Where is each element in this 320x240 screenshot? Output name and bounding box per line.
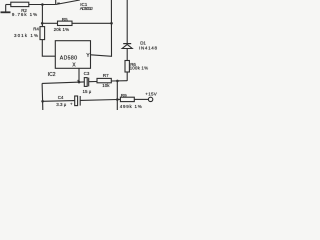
wire node down to bottom — [116, 81, 118, 110]
+15V terminal circle — [148, 97, 152, 101]
svg-text:C3: C3 — [84, 71, 90, 76]
svg-text:9.76k 1%: 9.76k 1% — [12, 12, 37, 17]
junction R7/R6/down — [116, 80, 119, 83]
svg-text:C4: C4 — [58, 95, 64, 100]
IC2 AD580 box — [55, 41, 90, 69]
svg-text:+: + — [70, 102, 73, 107]
wire node to R5 — [42, 22, 57, 24]
svg-text:X: X — [72, 62, 76, 68]
svg-text:100k 1%: 100k 1% — [130, 66, 149, 71]
svg-text:+15V: +15V — [145, 92, 157, 97]
svg-text:301k 1%: 301k 1% — [14, 33, 38, 38]
diode D1 — [122, 44, 132, 49]
resistor R4 — [40, 27, 45, 40]
wire R6 top to D1 — [126, 49, 128, 61]
wire R7 to node — [111, 80, 127, 82]
svg-text:R5: R5 — [62, 17, 68, 22]
junction X pin / middle rail — [78, 81, 81, 84]
junction R9 rail — [116, 98, 119, 101]
output node junction — [110, 22, 113, 25]
resistor R9 — [120, 97, 134, 101]
wire R2 to op-amp input — [29, 4, 56, 6]
svg-text:15 μ: 15 μ — [83, 89, 92, 94]
resistor R6 — [125, 61, 129, 73]
wire R6 bottom link — [126, 72, 128, 81]
capacitor C3 — [84, 78, 88, 87]
svg-text:3.3 μ: 3.3 μ — [56, 102, 67, 107]
wire R5 to output node — [72, 22, 112, 24]
svg-text:R4: R4 — [33, 27, 39, 32]
resistor R5 — [58, 21, 73, 25]
node junction R4/R5 — [41, 22, 44, 25]
wire output vertical to Y pin — [91, 0, 112, 56]
svg-text:Y: Y — [86, 53, 90, 59]
wire ground to R2 — [6, 4, 11, 6]
svg-text:R9: R9 — [121, 93, 127, 98]
resistor R7 — [97, 78, 111, 82]
svg-text:10k: 10k — [102, 83, 110, 88]
svg-text:20k 1%: 20k 1% — [54, 27, 70, 32]
wire node down to R4 — [41, 5, 43, 27]
wire R9 to +15V terminal — [134, 98, 148, 100]
op-amp U1 (partially cropped) — [56, 0, 80, 5]
junction left column / bottom rail — [41, 100, 44, 103]
wire C3 to R7 — [89, 81, 97, 83]
X pin wire — [78, 68, 80, 82]
wire R4 to AD580 left pin — [42, 40, 55, 57]
svg-text:AD503J: AD503J — [80, 6, 93, 11]
ground — [1, 5, 11, 13]
resistor R2 — [11, 2, 29, 6]
svg-text:IN4148: IN4148 — [139, 45, 157, 50]
wire bottom rail to C4 — [43, 100, 75, 103]
svg-text:R7: R7 — [103, 73, 109, 78]
svg-text:+: + — [77, 79, 80, 84]
wire junction to R9 — [117, 98, 120, 100]
svg-text:AD580: AD580 — [60, 55, 77, 61]
capacitor C4 — [75, 96, 81, 106]
wire C4 to junction — [80, 99, 117, 102]
wire D1 to top supply — [126, 0, 128, 44]
svg-text:499k 1%: 499k 1% — [120, 104, 142, 109]
node junction R2/R4/op-amp — [41, 3, 44, 6]
wire middle rail — [42, 82, 84, 84]
wire left column down — [41, 83, 44, 110]
svg-text:IC2: IC2 — [48, 72, 56, 78]
